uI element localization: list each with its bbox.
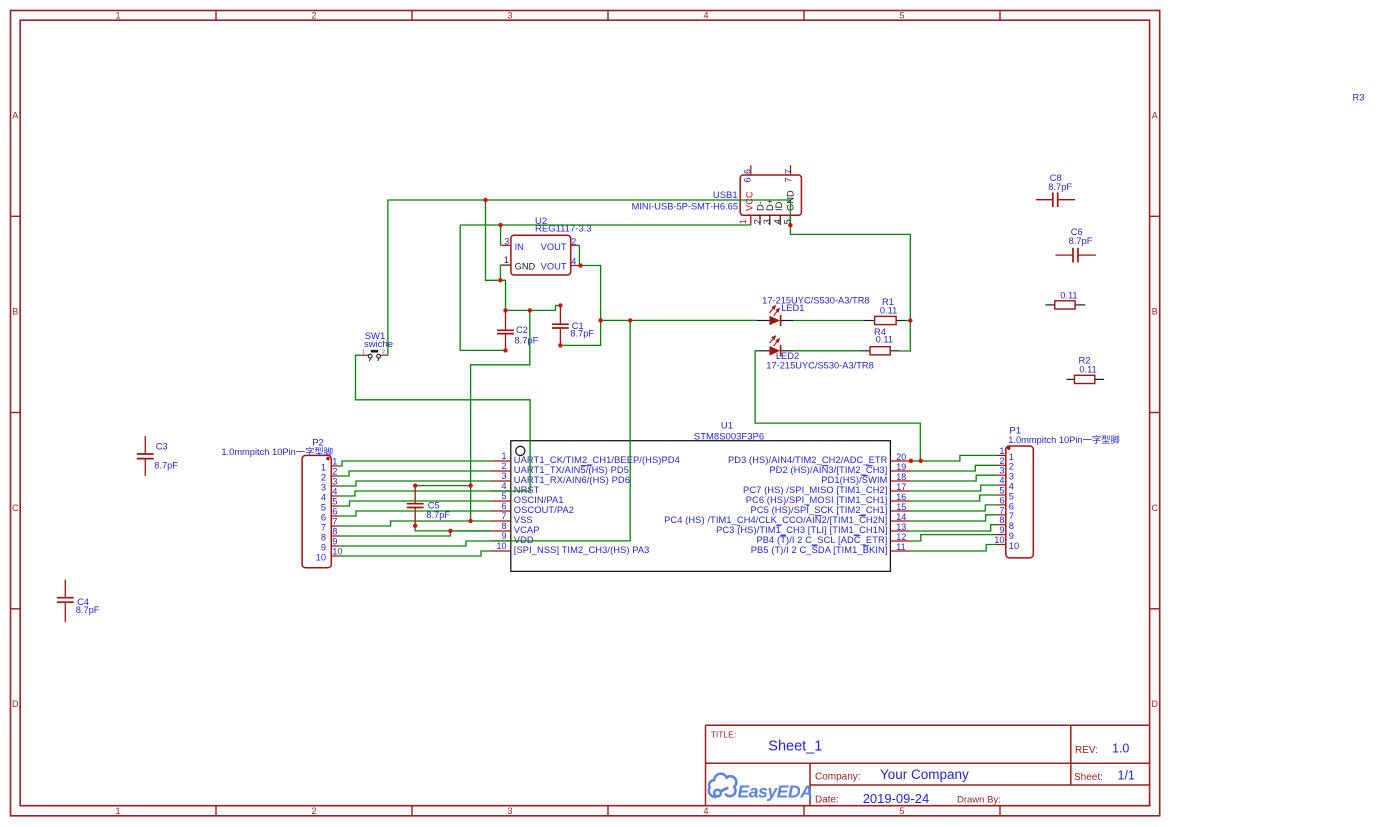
node VOUT-LED1 (598, 318, 602, 322)
connector P1 (1006, 426, 1120, 558)
svg-text:4: 4 (571, 256, 576, 266)
svg-text:1: 1 (738, 219, 748, 224)
wire LED1 to R1 (794, 320, 864, 322)
svg-text:1/1: 1/1 (1118, 769, 1135, 783)
switch SW1 (361, 331, 393, 361)
U1 pin 11 (PB5 (T)/I 2 C_SDA [TIM1_BKIN]) (751, 542, 910, 555)
node C5 bottom (413, 524, 417, 528)
svg-text:Company:: Company: (815, 771, 861, 782)
connector P2 (221, 438, 333, 568)
P2 pin 2 (321, 467, 340, 483)
node C2 top (503, 308, 507, 312)
svg-text:5: 5 (1009, 491, 1014, 501)
wire P2.9 to U1.9 (340, 541, 491, 546)
svg-text:15: 15 (896, 502, 906, 512)
LED LED1 (757, 295, 870, 326)
U1 pin 15 (PC5 (HS)/SPI_SCK [TIM2_CH1]) (750, 502, 910, 515)
svg-text:2: 2 (321, 472, 326, 482)
svg-text:IN: IN (515, 242, 524, 252)
svg-text:4: 4 (772, 219, 782, 224)
U1 pin 13 (PC3 (HS)/TIM1_CH3 [TLI] [TIM1_CH1N]) (716, 522, 910, 535)
wire U1.18 to P1.3 (910, 475, 997, 481)
svg-text:UART1_TX/AIN5/(HS) PD5: UART1_TX/AIN5/(HS) PD5 (514, 465, 629, 475)
U1 pin 6 (OSCOUT/PA2) (491, 501, 574, 515)
svg-text:18: 18 (896, 472, 906, 482)
svg-text:Sheet_1: Sheet_1 (768, 738, 822, 754)
svg-text:0.11: 0.11 (1060, 290, 1077, 300)
wire U1.13 to P1.8 (910, 525, 997, 531)
svg-text:4: 4 (999, 476, 1004, 486)
svg-text:UART1_CK/TIM2_CH1/BEEP/(HS)PD4: UART1_CK/TIM2_CH1/BEEP/(HS)PD4 (514, 455, 680, 465)
svg-text:VSS: VSS (514, 515, 533, 525)
node U1 pin20 b (919, 459, 923, 463)
svg-text:B: B (12, 307, 18, 317)
svg-text:3: 3 (762, 219, 772, 224)
wire U2 pin3 drop (500, 225, 502, 245)
wire U1.19 to P1.2 (910, 465, 997, 471)
svg-text:2: 2 (382, 350, 385, 356)
wire P2.7 to U1.7 (340, 521, 491, 526)
svg-text:C3: C3 (156, 441, 168, 451)
wire C5 top to GND rail (415, 485, 470, 487)
resistor R2 (1066, 356, 1104, 384)
svg-text:1: 1 (115, 806, 120, 816)
svg-text:PC4 (HS) /TIM1_CH4/CLK_CCO/AIN: PC4 (HS) /TIM1_CH4/CLK_CCO/AIN2/[TIM1_CH… (664, 515, 887, 525)
svg-text:5: 5 (332, 497, 337, 507)
wire U1.17 to P1.4 (910, 485, 997, 491)
svg-text:10: 10 (994, 535, 1004, 545)
svg-text:8: 8 (501, 521, 506, 531)
P1 pin 5 (997, 486, 1014, 502)
svg-text:PD2 (HS)/AIN3/[TIM2_CH3]: PD2 (HS)/AIN3/[TIM2_CH3] (769, 465, 887, 475)
svg-text:VOUT: VOUT (541, 242, 567, 252)
svg-text:C: C (12, 503, 19, 513)
resistor R1 (864, 297, 905, 325)
svg-text:PC7 (HS) /SPI_MISO [TIM1_CH2]: PC7 (HS) /SPI_MISO [TIM1_CH2] (743, 485, 887, 495)
wire U2 pin2 to pin4 (578, 245, 580, 265)
P1 pin 2 (997, 456, 1014, 472)
wire SW1.1 to U1 NRST (356, 355, 531, 491)
svg-text:ID: ID (774, 201, 784, 211)
regulator U2 REG1117-3.3 (511, 216, 592, 275)
P1 pin1 marker (1007, 447, 1010, 450)
title block (706, 725, 1150, 806)
svg-text:3: 3 (507, 11, 512, 21)
svg-text:5: 5 (999, 486, 1004, 496)
svg-text:2: 2 (501, 461, 506, 471)
U1 pin 14 (PC4 (HS) /TIM1_CH4/CLK_CCO/AIN2/[TIM1_CH2N]) (664, 512, 910, 525)
svg-text:6: 6 (1009, 501, 1014, 511)
svg-text:3: 3 (507, 806, 512, 816)
U2 pin 4 VOUT (571, 256, 580, 266)
wire U1.11 to P1.10 (910, 545, 997, 552)
U1 pin 5 (OSCIN/PA1) (491, 491, 564, 505)
svg-text:10: 10 (332, 547, 342, 557)
wire U1.20 to P1.1 (910, 455, 997, 461)
node GND rail (528, 308, 532, 312)
svg-text:0.11: 0.11 (1079, 365, 1096, 375)
svg-text:8: 8 (332, 527, 337, 537)
wire U2 GND pin drop (499, 265, 501, 280)
wire P2.2 to U1.2 (340, 471, 491, 476)
wire input cap branch (460, 225, 505, 350)
svg-text:2019-09-24: 2019-09-24 (863, 791, 930, 806)
svg-text:8.7pF: 8.7pF (570, 328, 594, 338)
svg-text:D: D (12, 699, 19, 709)
node C1 bottom (558, 343, 562, 347)
svg-text:Date:: Date: (815, 795, 839, 806)
U1 pin 18 (PD1(HS)/SWIM) (821, 472, 910, 485)
svg-text:7: 7 (321, 522, 326, 532)
P2 pin 3 (321, 477, 340, 493)
U1 pin 19 (PD2 (HS)/AIN3/[TIM2_CH3]) (769, 462, 910, 475)
wire P2.3 to U1.3 (340, 481, 491, 486)
svg-text:17: 17 (896, 482, 906, 492)
svg-text:8.7pF: 8.7pF (1048, 182, 1072, 192)
svg-text:LED2: LED2 (776, 351, 799, 361)
wire P2.10 to U1.10 (340, 551, 491, 556)
svg-text:2: 2 (311, 806, 316, 816)
svg-text:1: 1 (115, 11, 120, 21)
svg-text:1: 1 (999, 446, 1004, 456)
svg-text:D: D (1152, 699, 1159, 709)
svg-text:VDD: VDD (514, 535, 534, 545)
LED LED2 (757, 335, 874, 370)
svg-text:6: 6 (332, 507, 337, 517)
svg-text:6: 6 (742, 169, 752, 174)
svg-text:3: 3 (321, 482, 326, 492)
USB1 pin 6 (shield) (742, 165, 752, 182)
svg-text:9: 9 (332, 537, 337, 547)
svg-text:14: 14 (896, 512, 906, 522)
node U1 pin20 a (909, 459, 913, 463)
capacitor C2 (497, 310, 538, 350)
svg-text:17-215UYC/S530-A3/TR8: 17-215UYC/S530-A3/TR8 (762, 295, 870, 305)
U1 pin 10 ([SPI_NSS] TIM2_CH3/(HS) PA3) (491, 541, 649, 555)
svg-text:NRST: NRST (514, 485, 540, 495)
USB1 pin 5 GND (783, 190, 796, 225)
svg-text:1.0: 1.0 (1112, 741, 1129, 755)
svg-text:6: 6 (999, 495, 1004, 505)
svg-text:10: 10 (1009, 541, 1019, 551)
svg-text:swiche: swiche (364, 339, 393, 350)
svg-text:B: B (1152, 307, 1158, 317)
svg-text:VCC: VCC (744, 191, 754, 211)
svg-text:REV:: REV: (1075, 745, 1098, 756)
svg-text:PB5 (T)/I 2 C_SDA [TIM1_BKIN]: PB5 (T)/I 2 C_SDA [TIM1_BKIN] (751, 545, 888, 555)
svg-text:Your Company: Your Company (880, 767, 969, 782)
wire C5 bottom to U1 VCAP (415, 526, 491, 531)
svg-text:1: 1 (321, 462, 326, 472)
wire U2 VOUT down (560, 266, 600, 346)
U1 pin 20 (PD3 (HS)/AIN4/TIM2_CH2/ADC_ETR) (728, 452, 910, 465)
svg-text:13: 13 (896, 522, 906, 532)
svg-text:Sheet:: Sheet: (1074, 772, 1103, 783)
svg-text:9: 9 (1009, 531, 1014, 541)
svg-text:3: 3 (501, 471, 506, 481)
svg-text:A: A (12, 110, 18, 120)
capacitor C1 (552, 306, 594, 346)
node VCC-SW junction (483, 198, 487, 202)
U1 pin 17 (PC7 (HS) /SPI_MISO [TIM1_CH2]) (743, 482, 910, 495)
wire R1 to rail (905, 320, 910, 322)
svg-text:2: 2 (311, 11, 316, 21)
svg-text:C: C (1152, 503, 1159, 513)
P2 pin1 marker (326, 457, 329, 460)
U1 pin 7 (VSS) (491, 511, 533, 525)
node VDD branch (628, 318, 632, 322)
svg-text:1: 1 (332, 457, 337, 467)
P2 pin 5 (321, 497, 340, 513)
svg-text:UART1_RX/AIN6/(HS) PD6: UART1_RX/AIN6/(HS) PD6 (514, 475, 630, 485)
P2 pin 9 (321, 537, 340, 553)
wire VOUT to LED1 (601, 319, 757, 321)
svg-text:R3: R3 (1353, 93, 1365, 103)
svg-text:4: 4 (332, 487, 337, 497)
wire SW1.2 to USB GND rail (388, 200, 791, 355)
svg-text:1: 1 (504, 255, 509, 265)
wire USB VCC to U2 IN (460, 224, 751, 226)
wire P2.4 to U1.4 (340, 491, 491, 496)
svg-text:D-: D- (755, 201, 765, 211)
svg-text:STM8S003F3P6: STM8S003F3P6 (694, 431, 764, 442)
node USB GND pin (788, 223, 792, 227)
svg-text:8: 8 (321, 532, 326, 542)
U1 pin 16 (PC6 (HS)/SPI_MOSI [TIM1_CH1]) (746, 492, 910, 505)
svg-text:7: 7 (501, 511, 506, 521)
svg-text:17-215UYC/S530-A3/TR8: 17-215UYC/S530-A3/TR8 (766, 360, 874, 370)
svg-text:9: 9 (501, 531, 506, 541)
EasyEDA logo (709, 774, 813, 802)
svg-text:3: 3 (1009, 472, 1014, 482)
svg-text:9: 9 (999, 525, 1004, 535)
wire VOUT to U1 VDD (491, 320, 630, 541)
svg-text:C2: C2 (516, 325, 528, 335)
U1 pin 8 (VCAP) (491, 521, 540, 535)
USB1 pin 2 D- (752, 201, 765, 225)
svg-text:1: 1 (501, 451, 506, 461)
wire VCC branch to U2 GND node (486, 200, 506, 310)
resistor R4 (861, 327, 900, 355)
svg-text:16: 16 (896, 492, 906, 502)
svg-text:2: 2 (999, 456, 1004, 466)
P1 pin 8 (997, 515, 1014, 531)
svg-text:1: 1 (1009, 452, 1014, 462)
P1 pin 4 (997, 476, 1014, 492)
node C2 bottom (503, 348, 507, 352)
wire P2.6 to U1.6 (340, 511, 491, 516)
wire GND rail down to VSS (471, 310, 530, 521)
svg-text:2: 2 (1009, 462, 1014, 472)
USB1 pin 4 ID (772, 201, 784, 225)
svg-text:7: 7 (332, 517, 337, 527)
P2 pin 8 (321, 527, 340, 543)
svg-text:8: 8 (1009, 521, 1014, 531)
svg-text:7: 7 (783, 169, 793, 174)
svg-text:6: 6 (501, 501, 506, 511)
svg-text:4: 4 (1009, 482, 1014, 492)
svg-text:11: 11 (896, 542, 905, 552)
svg-text:PB4 (T)/I 2 C_SCL [ADC_ETR]: PB4 (T)/I 2 C_SCL [ADC_ETR] (756, 535, 887, 545)
svg-text:10: 10 (316, 552, 326, 562)
svg-text:3: 3 (332, 477, 337, 487)
svg-text:19: 19 (896, 462, 906, 472)
U1 pin 2 (UART1_TX/AIN5/(HS) PD5) (491, 461, 629, 475)
svg-text:PC5 (HS)/SPI_SCK [TIM2_CH1]: PC5 (HS)/SPI_SCK [TIM2_CH1] (750, 505, 887, 515)
svg-text:Drawn By:: Drawn By: (957, 795, 1001, 806)
svg-text:PC6 (HS)/SPI_MOSI [TIM1_CH1]: PC6 (HS)/SPI_MOSI [TIM1_CH1] (746, 495, 888, 505)
svg-text:U1: U1 (721, 420, 733, 431)
node U2 VOUT pin4 (578, 263, 582, 267)
connector USB1 MINI-USB (632, 175, 802, 215)
svg-text:4: 4 (321, 492, 326, 502)
svg-text:1.0mmpitch 10Pin一字型脚: 1.0mmpitch 10Pin一字型脚 (1008, 434, 1120, 445)
svg-text:OSCOUT/PA2: OSCOUT/PA2 (514, 505, 574, 515)
node U2 GND (498, 278, 502, 282)
svg-text:4: 4 (703, 11, 708, 21)
svg-text:PD3 (HS)/AIN4/TIM2_CH2/ADC_ETR: PD3 (HS)/AIN4/TIM2_CH2/ADC_ETR (728, 455, 888, 465)
P1 pin 10 (994, 535, 1019, 551)
U1 pin 1 (UART1_CK/TIM2_CH1/BEEP/(HS)PD4) (491, 451, 680, 465)
P2 pin 1 (321, 457, 340, 473)
svg-text:10: 10 (496, 541, 506, 551)
node C5 top rail (468, 483, 472, 487)
svg-text:3: 3 (999, 466, 1004, 476)
node R1 right rail (908, 318, 912, 322)
svg-text:VCAP: VCAP (514, 525, 540, 535)
wire C2 top to C1 top (506, 306, 561, 311)
svg-text:7: 7 (783, 177, 793, 182)
capacitor C6 (1055, 227, 1096, 263)
U1 pin 3 (UART1_RX/AIN6/(HS) PD6) (491, 471, 630, 485)
P2 pin 4 (321, 487, 340, 503)
svg-text:8: 8 (999, 515, 1004, 525)
U2 pin 3 IN (501, 236, 511, 246)
svg-text:5: 5 (501, 491, 506, 501)
wire P2.1 to U1.1 (340, 461, 491, 466)
svg-text:0.11: 0.11 (876, 334, 893, 344)
svg-text:VOUT: VOUT (541, 262, 567, 272)
svg-text:20: 20 (896, 452, 906, 462)
svg-text:TITLE:: TITLE: (711, 730, 737, 740)
IC U1 STM8S003F3P6 (511, 420, 891, 571)
P2 pin 7 (321, 517, 340, 533)
P2 pin 6 (321, 507, 340, 523)
resistor (1046, 290, 1086, 309)
svg-text:A: A (1152, 110, 1158, 120)
node U2 IN drop (498, 223, 502, 227)
USB1 pin 7 (shield) (783, 165, 793, 182)
svg-text:5: 5 (899, 11, 904, 21)
svg-text:8.7pF: 8.7pF (154, 460, 178, 470)
wire U1.14 to P1.7 (910, 515, 997, 521)
wire U1.16 to P1.5 (910, 495, 997, 501)
wire U1.12 to P1.9 (910, 535, 997, 541)
wire USB pin5 to right rail (790, 225, 910, 351)
P1 pin 7 (997, 505, 1014, 521)
svg-text:4: 4 (703, 806, 708, 816)
U2 pin 2 VOUT (571, 236, 580, 246)
svg-text:1.0mmpitch 10Pin一字型脚: 1.0mmpitch 10Pin一字型脚 (221, 446, 333, 457)
svg-text:2: 2 (332, 467, 337, 477)
svg-text:8.7pF: 8.7pF (76, 605, 100, 615)
capacitor C4 (57, 580, 100, 623)
svg-text:0.11: 0.11 (880, 305, 897, 315)
svg-text:3: 3 (504, 236, 509, 246)
svg-text:5: 5 (321, 502, 326, 512)
U2 pin 1 GND (500, 255, 511, 265)
USB1 pin 3 D+ (762, 199, 775, 225)
U1 pin 12 (PB4 (T)/I 2 C_SCL [ADC_ETR]) (756, 532, 910, 545)
svg-text:12: 12 (896, 532, 906, 542)
U1 pin 4 (NRST) (491, 481, 540, 495)
wire LED2 to U1 pin20 node (755, 351, 920, 461)
capacitor C8 (1036, 173, 1075, 207)
wire LED2 to R4 (794, 350, 861, 352)
svg-text:PC3 (HS)/TIM1_CH3 [TLI] [TIM1_: PC3 (HS)/TIM1_CH3 [TLI] [TIM1_CH1N] (716, 525, 887, 535)
node VCAP tap (448, 529, 452, 533)
svg-text:MINI-USB-5P-SMT-H6.65: MINI-USB-5P-SMT-H6.65 (632, 201, 738, 211)
svg-text:2: 2 (571, 236, 576, 246)
node VSS tap (468, 519, 472, 523)
P1 pin 9 (997, 525, 1014, 541)
node C5 top (413, 483, 417, 487)
svg-text:5: 5 (899, 806, 904, 816)
svg-text:C5: C5 (428, 500, 440, 510)
capacitor C5 (407, 486, 451, 526)
svg-text:9: 9 (321, 542, 326, 552)
svg-text:PD1(HS)/SWIM: PD1(HS)/SWIM (821, 475, 887, 485)
U1 pin 9 (VDD) (491, 531, 534, 545)
wire P2.8 to U1.8 (340, 531, 491, 536)
svg-text:6: 6 (321, 512, 326, 522)
svg-text:EasyEDA: EasyEDA (738, 781, 813, 801)
svg-text:1: 1 (362, 350, 365, 356)
capacitor C3 (137, 436, 178, 476)
svg-text:4: 4 (501, 481, 506, 491)
svg-text:OSCIN/PA1: OSCIN/PA1 (514, 495, 564, 505)
wire U1.15 to P1.6 (910, 505, 997, 511)
P1 pin 1 (997, 446, 1014, 462)
wire P2.5 to U1.5 (340, 501, 491, 506)
svg-text:7: 7 (1009, 511, 1014, 521)
svg-text:7: 7 (999, 505, 1004, 515)
P1 pin 6 (997, 495, 1014, 511)
svg-text:[SPI_NSS] TIM2_CH3/(HS) PA3: [SPI_NSS] TIM2_CH3/(HS) PA3 (514, 545, 650, 555)
P1 pin 3 (997, 466, 1014, 482)
node C1 top (558, 303, 562, 307)
svg-text:6: 6 (742, 177, 752, 182)
svg-text:8.7pF: 8.7pF (1069, 236, 1093, 246)
svg-text:2: 2 (752, 219, 762, 224)
svg-text:8.7pF: 8.7pF (515, 336, 539, 346)
svg-text:GND: GND (515, 262, 536, 272)
P2 pin 10 (316, 547, 343, 563)
USB1 pin 1 VCC (738, 191, 755, 225)
